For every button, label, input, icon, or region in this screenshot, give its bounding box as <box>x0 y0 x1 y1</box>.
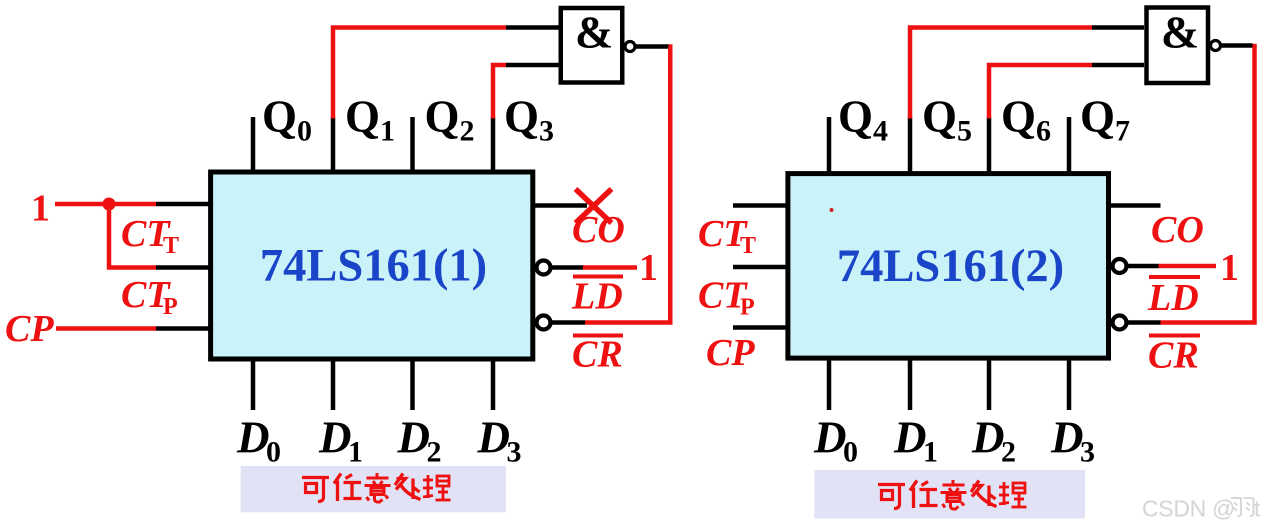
counter U2 74LS161(2) <box>788 174 1109 359</box>
G2 input stub B <box>1092 63 1144 68</box>
wire Q1 to G1.A <box>333 28 506 119</box>
wire Q3 to G1.B <box>493 65 506 119</box>
wire Q6 to G2.B <box>989 65 1092 119</box>
X mark (CO unused) <box>576 189 612 223</box>
svg-text:1: 1 <box>639 247 658 289</box>
svg-text:Q5: Q5 <box>922 92 972 148</box>
svg-text:Q4: Q4 <box>838 92 888 148</box>
U2 pin Q5 stub <box>908 117 913 173</box>
svg-text:CR: CR <box>572 334 623 376</box>
svg-text:Q3: Q3 <box>504 92 554 148</box>
svg-text:Q0: Q0 <box>262 92 312 148</box>
U1 pin Q3 stub <box>491 117 496 172</box>
svg-text:CP: CP <box>706 332 755 374</box>
U2 pin CP stub <box>733 325 788 330</box>
U1 pin CT_P stub <box>156 265 211 270</box>
svg-text:T: T <box>163 233 179 259</box>
U2 pin D2 stub <box>987 357 992 410</box>
G1 output stub <box>636 44 669 49</box>
svg-text:D: D <box>971 413 1005 463</box>
wire U2 LD to 1 <box>1159 264 1217 269</box>
U2 pin CO stub <box>1109 203 1161 208</box>
watermark CSDN <box>1142 496 1261 522</box>
U2 pin LD bubble <box>1113 259 1127 273</box>
svg-text:&: & <box>1161 7 1199 58</box>
svg-text:1: 1 <box>923 436 938 469</box>
svg-text:1: 1 <box>348 436 363 469</box>
svg-text:74LS161(1): 74LS161(1) <box>260 241 487 292</box>
wire net-1 down to CT_P <box>109 204 156 268</box>
svg-text:&: & <box>575 7 613 58</box>
wire LD to 1 <box>583 265 637 270</box>
U2 pin CT_T stub <box>733 203 788 208</box>
svg-text:Q2: Q2 <box>425 92 475 148</box>
svg-text:CR: CR <box>1148 335 1199 377</box>
svg-text:2: 2 <box>1001 436 1016 469</box>
U2 pin LD stub <box>1127 264 1159 269</box>
U2 pin CR bubble <box>1113 316 1127 330</box>
svg-text:CSDN @: CSDN @ <box>1142 496 1235 522</box>
svg-text:LD: LD <box>1147 277 1199 319</box>
wire Q5 to G2.A <box>910 28 1092 119</box>
U2 pin D1 stub <box>908 357 913 410</box>
svg-text:P: P <box>163 294 178 320</box>
U2 CR label with overline <box>1149 334 1200 338</box>
svg-text:D: D <box>318 413 352 463</box>
svg-text:CO: CO <box>1151 209 1204 251</box>
svg-text:0: 0 <box>843 436 858 469</box>
G1 input stub A <box>506 25 559 30</box>
U1 LD label with overline <box>573 275 623 279</box>
junction dot net-1 <box>103 198 116 211</box>
stray red dot <box>830 208 834 212</box>
svg-text:Q6: Q6 <box>1001 92 1051 148</box>
svg-text:74LS161(2): 74LS161(2) <box>837 241 1064 292</box>
U1 pin LD stub <box>551 265 584 270</box>
wire G1 output to U1 CR <box>585 47 670 323</box>
svg-text:0: 0 <box>266 436 281 469</box>
svg-text:P: P <box>740 295 755 321</box>
U2 pin CR stub <box>1127 320 1161 325</box>
U1 pin Q1 stub <box>331 117 336 172</box>
svg-text:2: 2 <box>427 436 442 469</box>
svg-text:3: 3 <box>1080 436 1095 469</box>
svg-text:D: D <box>236 413 270 463</box>
svg-text:D: D <box>1050 413 1084 463</box>
svg-text:D: D <box>813 413 847 463</box>
svg-text:D: D <box>397 413 431 463</box>
U1 pin Q0 stub <box>251 117 256 172</box>
wire net-1 to CT_T <box>55 202 156 207</box>
U1 pin D3 stub <box>491 358 496 410</box>
G2 output bubble <box>1211 41 1221 51</box>
U1 pin CP stub <box>156 326 211 331</box>
U2 LD label with overline <box>1149 275 1200 279</box>
wire G2 output to U2 CR <box>1161 46 1255 323</box>
G1 input stub B <box>506 63 559 68</box>
counter U1 74LS161(1) <box>211 172 533 359</box>
U1 CR label with overline <box>573 334 623 338</box>
U1 pin CR stub <box>551 320 586 325</box>
U2 pin Q4 stub <box>827 117 832 173</box>
svg-text:CO: CO <box>572 209 625 251</box>
svg-text:3: 3 <box>507 436 522 469</box>
svg-text:LD: LD <box>571 276 623 318</box>
G2 input stub A <box>1092 25 1144 30</box>
U2 pin Q6 stub <box>987 117 992 173</box>
annotation box U1 (can be handled arbitrarily) <box>241 466 506 512</box>
svg-text:1: 1 <box>31 188 50 230</box>
annotation box U2 (can be handled arbitrarily) <box>814 470 1085 519</box>
U1 pin CO stub <box>533 203 588 208</box>
nand gate G2 <box>1147 7 1209 84</box>
svg-text:Q1: Q1 <box>345 92 395 148</box>
U1 pin CT_T stub <box>156 202 211 207</box>
wire CP <box>56 326 156 331</box>
svg-text:1: 1 <box>1220 247 1239 289</box>
G1 output bubble <box>625 42 635 52</box>
U2 pin CT_P stub <box>733 265 788 270</box>
U1 pin D0 stub <box>251 358 256 410</box>
U1 pin CR bubble <box>537 316 551 330</box>
svg-text:Q7: Q7 <box>1080 92 1130 148</box>
U2 pin D0 stub <box>827 357 832 410</box>
U1 pin Q2 stub <box>410 117 415 172</box>
svg-text:T: T <box>740 233 756 259</box>
U1 pin LD bubble <box>537 261 551 275</box>
U2 pin Q7 stub <box>1067 117 1072 173</box>
svg-text:D: D <box>477 413 511 463</box>
svg-text:D: D <box>893 413 927 463</box>
svg-text:CP: CP <box>5 308 54 350</box>
nand gate G1 <box>561 7 623 83</box>
svg-text:t: t <box>1254 496 1261 522</box>
U1 pin D2 stub <box>410 358 415 410</box>
U2 pin D3 stub <box>1067 357 1072 410</box>
U1 pin D1 stub <box>331 358 336 410</box>
G2 output stub <box>1221 43 1253 48</box>
